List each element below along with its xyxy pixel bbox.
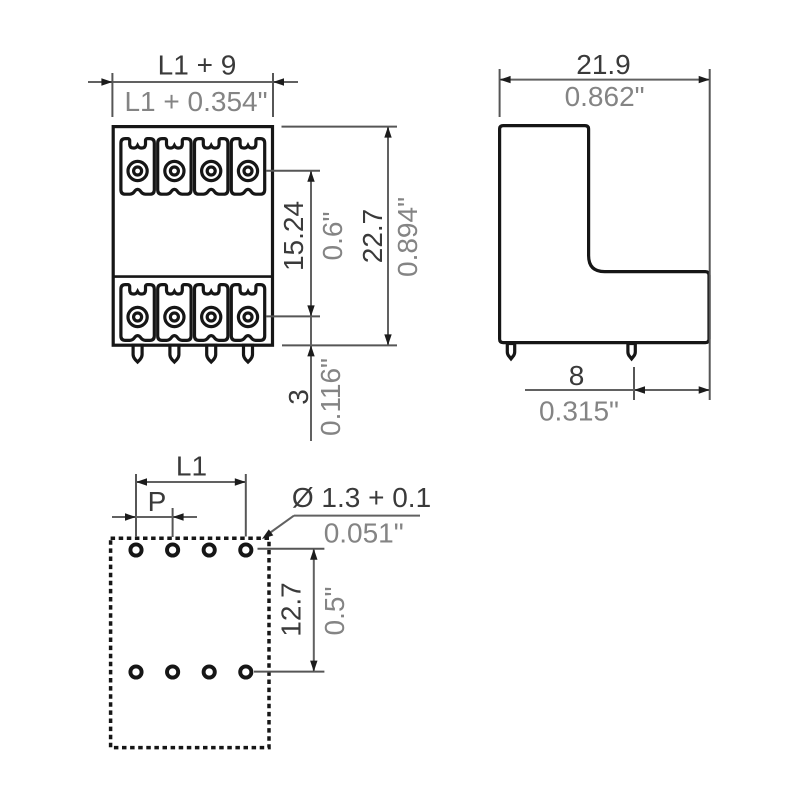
extension tick left L1+9 bbox=[111, 73, 113, 117]
leader underline bbox=[294, 515, 420, 517]
terminal row2 pole 1 outline bbox=[121, 285, 154, 341]
terminal row2 pole 1 inner ring bbox=[134, 313, 142, 321]
arrow 8 right bbox=[699, 386, 710, 393]
solder pin 3 front view bbox=[207, 345, 216, 362]
extension line right 21.9 and 8 bbox=[709, 69, 711, 400]
extension line body bottom bbox=[282, 344, 397, 346]
svg-text:12.7: 12.7 bbox=[276, 582, 307, 637]
leader arrowhead bbox=[262, 529, 273, 539]
drilling hole row2 pos3 bbox=[204, 666, 215, 677]
dimension line P bbox=[112, 516, 197, 518]
arrow L1+9 left bbox=[101, 78, 112, 85]
arrow L1 right bbox=[235, 478, 246, 485]
drilling hole row1 pos2 bbox=[167, 544, 178, 555]
terminal row1 pole 1 outline bbox=[121, 139, 154, 195]
leader diagonal bbox=[266, 516, 295, 536]
drilling plan dotted outline bbox=[111, 538, 269, 747]
svg-text:3: 3 bbox=[283, 389, 314, 405]
arrow 12.7 bottom bbox=[310, 661, 317, 672]
extension tick pin2 for 8 bbox=[633, 367, 635, 400]
extension line 12.7 bottom bbox=[254, 671, 324, 673]
extension line P right bbox=[172, 508, 174, 537]
arrow 15.24 top bbox=[307, 171, 314, 182]
dimension line L1 bbox=[136, 481, 246, 483]
svg-text:L1 + 0.354": L1 + 0.354" bbox=[124, 86, 267, 117]
drilling hole row2 pos4 bbox=[240, 666, 251, 677]
terminal row1 pole 4 outer ring bbox=[238, 161, 257, 180]
terminal row1 pole 2 outer ring bbox=[165, 161, 184, 180]
terminal row2 pole 4 outline bbox=[231, 285, 264, 341]
arrow 22.7 top bbox=[384, 127, 391, 138]
svg-text:22.7: 22.7 bbox=[357, 209, 388, 264]
arrow L1 left bbox=[136, 478, 147, 485]
dimension L1+9 line bbox=[88, 81, 298, 83]
drilling hole row2 pos2 bbox=[167, 666, 178, 677]
svg-text:0.862": 0.862" bbox=[565, 81, 645, 112]
extension tick left 21.9 bbox=[499, 69, 501, 117]
terminal row1 pole 1 outer ring bbox=[128, 161, 147, 180]
extension tick right L1+9 bbox=[272, 73, 274, 117]
dimension line 8 bbox=[525, 389, 710, 391]
svg-text:0.315": 0.315" bbox=[539, 396, 619, 427]
terminal row2 pole 2 outer ring bbox=[165, 307, 184, 326]
arrow P right bbox=[173, 513, 184, 520]
solder pin 2 front view bbox=[170, 345, 179, 362]
terminal row1 pole 4 inner ring bbox=[244, 167, 252, 175]
svg-text:15.24: 15.24 bbox=[278, 201, 309, 271]
terminal row2 pole 4 outer ring bbox=[238, 307, 257, 326]
arrow P left bbox=[125, 513, 136, 520]
arrow 3 bottom bbox=[307, 345, 314, 356]
terminal row2 pole 3 inner ring bbox=[207, 313, 215, 321]
side pin 2 bbox=[628, 344, 635, 359]
arrow 21.9 left bbox=[500, 76, 511, 83]
terminal row2 pole 3 outline bbox=[195, 285, 228, 341]
svg-text:0.894": 0.894" bbox=[392, 197, 423, 277]
terminal row2 pole 4 inner ring bbox=[244, 313, 252, 321]
arrow 12.7 top bbox=[310, 549, 317, 560]
arrow 21.9 right bbox=[699, 76, 710, 83]
terminal row1 pole 3 outer ring bbox=[202, 161, 221, 180]
svg-text:21.9: 21.9 bbox=[576, 49, 631, 80]
dimension line 22.7 bbox=[387, 127, 389, 346]
side body L-shape bbox=[500, 126, 709, 343]
svg-text:0.6": 0.6" bbox=[317, 212, 348, 261]
svg-text:8: 8 bbox=[569, 360, 585, 391]
svg-text:0.5": 0.5" bbox=[319, 587, 350, 636]
arrow 15.24 bottom bbox=[307, 305, 314, 316]
terminal row1 pole 1 inner ring bbox=[134, 167, 142, 175]
terminal row1 pole 3 inner ring bbox=[207, 167, 215, 175]
svg-text:0.051": 0.051" bbox=[324, 518, 404, 549]
svg-text:L1: L1 bbox=[176, 451, 207, 482]
connector body outline bbox=[113, 127, 272, 346]
drilling hole row1 pos3 bbox=[204, 544, 215, 555]
arrow 22.7 bottom bbox=[384, 334, 391, 345]
dimension line 21.9 bbox=[500, 79, 710, 81]
svg-text:0.116": 0.116" bbox=[315, 358, 346, 436]
solder pin 1 front view bbox=[133, 345, 142, 362]
drilling hole row1 pos4 bbox=[240, 544, 251, 555]
terminal row2 pole 3 outer ring bbox=[202, 307, 221, 326]
arrow L1+9 right bbox=[273, 78, 284, 85]
svg-text:P: P bbox=[148, 486, 167, 517]
drilling hole row2 pos1 bbox=[130, 666, 141, 677]
dimension line 15.24 / 3 bbox=[310, 171, 312, 441]
body divider line bbox=[114, 275, 272, 278]
terminal row1 pole 2 outline bbox=[158, 139, 191, 195]
terminal row2 pole 1 outer ring bbox=[128, 307, 147, 326]
terminal row2 pole 2 outline bbox=[158, 285, 191, 341]
svg-text:L1 + 9: L1 + 9 bbox=[158, 50, 237, 81]
arrow 8 left bbox=[634, 386, 645, 393]
drilling hole row1 pos1 bbox=[130, 544, 141, 555]
extension line L1 left bbox=[135, 474, 137, 537]
dimension line 12.7 bbox=[313, 549, 315, 672]
extension line row2 centers bbox=[266, 315, 320, 317]
terminal row1 pole 4 outline bbox=[231, 139, 264, 195]
extension line row1 centers bbox=[266, 170, 320, 172]
terminal row1 pole 3 outline bbox=[195, 139, 228, 195]
extension line 12.7 top bbox=[258, 548, 325, 550]
terminal row2 pole 2 inner ring bbox=[170, 313, 178, 321]
extension line L1 right bbox=[245, 474, 247, 537]
svg-text:Ø 1.3 + 0.1: Ø 1.3 + 0.1 bbox=[292, 482, 431, 513]
terminal row1 pole 2 inner ring bbox=[170, 167, 178, 175]
solder pin 4 front view bbox=[244, 345, 253, 362]
side pin 1 bbox=[507, 344, 514, 359]
extension line body top bbox=[282, 126, 398, 128]
